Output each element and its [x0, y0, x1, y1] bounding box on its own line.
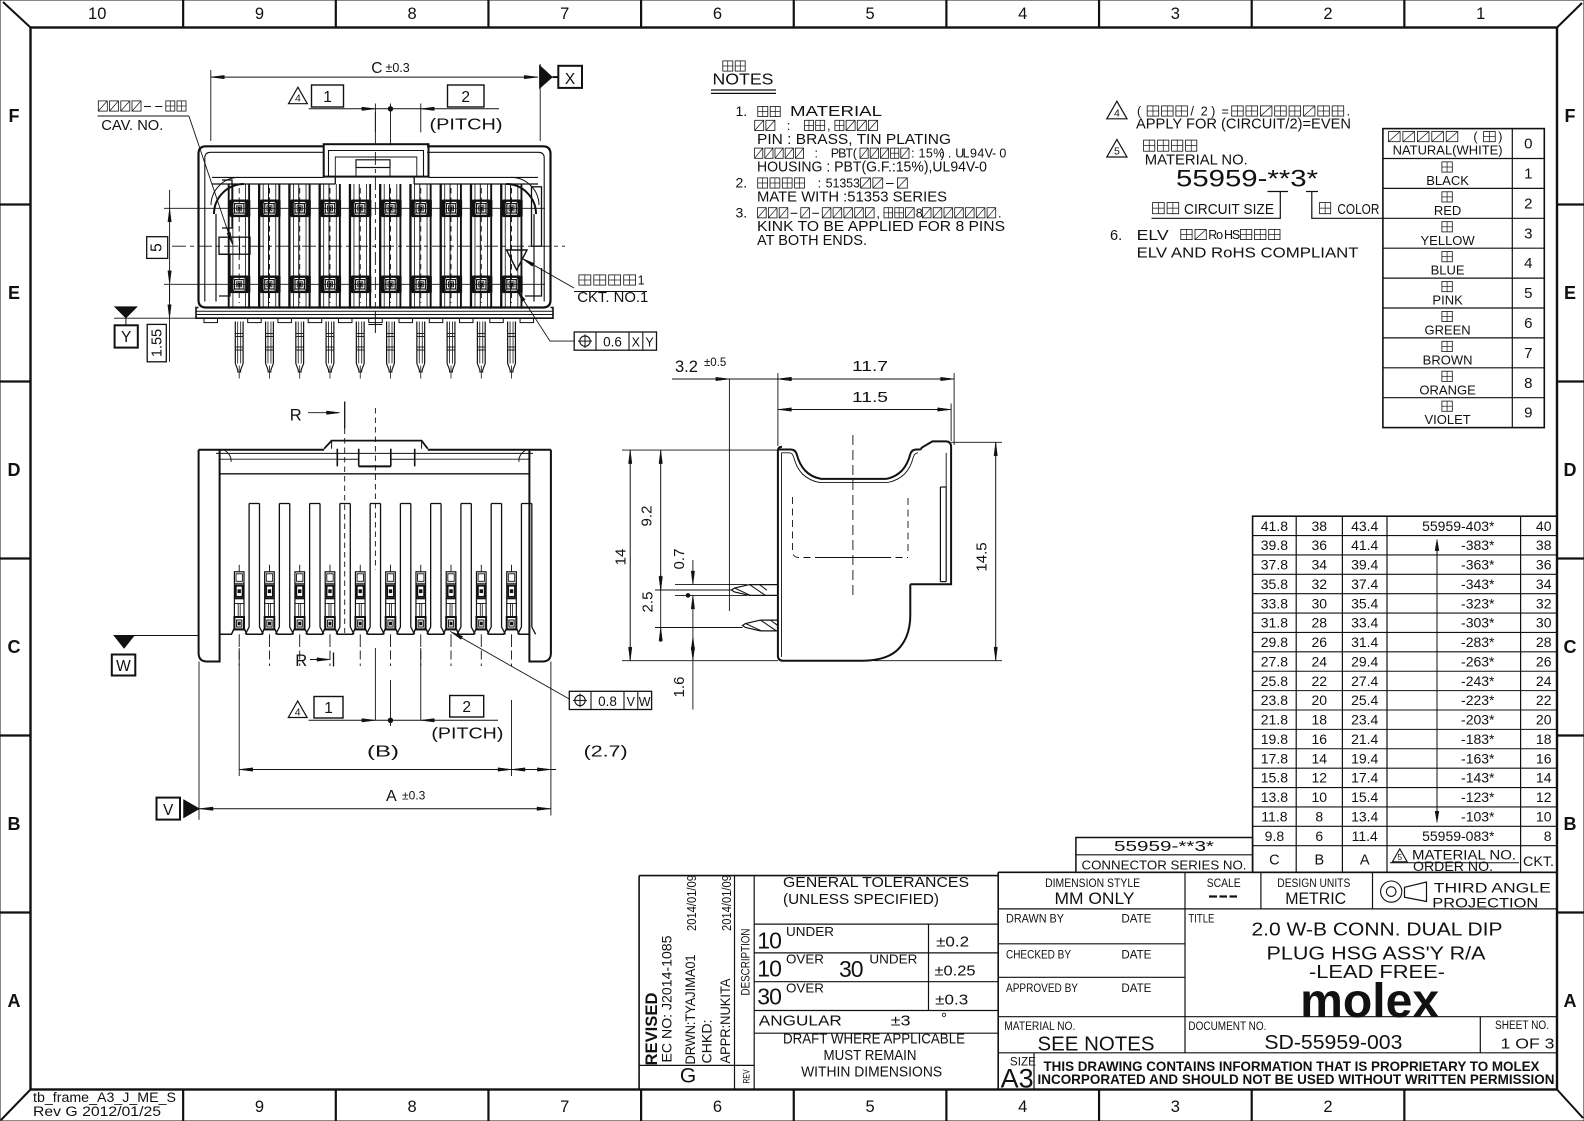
svg-text:DRAWN BY: DRAWN BY — [1006, 913, 1064, 925]
svg-text:A: A — [386, 788, 397, 805]
svg-text:-: - — [992, 147, 996, 161]
svg-text:3: 3 — [1171, 1098, 1180, 1116]
svg-text:): ) — [941, 147, 945, 161]
svg-text:1: 1 — [638, 274, 645, 288]
svg-text:39.4: 39.4 — [1351, 557, 1378, 573]
side view dimensions — [613, 357, 1003, 710]
svg-text:1: 1 — [918, 147, 925, 161]
svg-text:APPROVED BY: APPROVED BY — [1006, 983, 1078, 995]
svg-text:MM ONLY: MM ONLY — [1055, 889, 1135, 908]
svg-text:F: F — [9, 106, 20, 126]
svg-text:S: S — [1232, 228, 1240, 242]
svg-text:2: 2 — [461, 89, 470, 106]
svg-text:4: 4 — [295, 706, 301, 718]
svg-text::: : — [815, 147, 818, 161]
svg-text:31.4: 31.4 — [1351, 634, 1378, 650]
svg-text:1.6: 1.6 — [671, 677, 688, 698]
svg-text:,: , — [827, 119, 830, 133]
svg-text:CIRCUIT SIZE: CIRCUIT SIZE — [1184, 202, 1274, 218]
svg-text:8: 8 — [1544, 828, 1552, 844]
svg-text:5: 5 — [865, 5, 874, 23]
svg-text:BLUE: BLUE — [1431, 263, 1465, 278]
svg-text:26: 26 — [1536, 653, 1552, 669]
svg-text:43.4: 43.4 — [1351, 518, 1378, 534]
svg-text:(2.7): (2.7) — [584, 744, 628, 761]
svg-text:A: A — [1564, 991, 1577, 1011]
svg-text:10: 10 — [1312, 789, 1328, 805]
svg-text:39.8: 39.8 — [1261, 537, 1288, 553]
svg-text:35.8: 35.8 — [1261, 576, 1288, 592]
svg-text:SHEET NO.: SHEET NO. — [1495, 1020, 1549, 1032]
svg-text:UNDER: UNDER — [786, 925, 834, 939]
svg-text:3.2: 3.2 — [675, 358, 698, 376]
svg-text:36: 36 — [1536, 557, 1552, 573]
svg-text:17.4: 17.4 — [1351, 770, 1378, 786]
svg-text:30: 30 — [1312, 595, 1328, 611]
svg-text:37.8: 37.8 — [1261, 557, 1288, 573]
svg-text:DRAFT WHERE APPLICABLE: DRAFT WHERE APPLICABLE — [783, 1031, 965, 1047]
svg-text:17.8: 17.8 — [1261, 750, 1288, 766]
svg-text:UNDER: UNDER — [869, 953, 917, 967]
svg-text:18: 18 — [1536, 731, 1552, 747]
svg-text:2: 2 — [1323, 5, 1332, 23]
svg-text:1: 1 — [324, 700, 333, 717]
top view dimensions — [98, 60, 657, 362]
svg-text:SCALE: SCALE — [1207, 878, 1241, 890]
svg-text:34: 34 — [1312, 557, 1328, 573]
svg-text:D: D — [1564, 460, 1577, 480]
svg-text:(PITCH): (PITCH) — [430, 117, 503, 134]
svg-text:V: V — [163, 802, 174, 819]
svg-text:X: X — [632, 336, 641, 350]
svg-text:-343*: -343* — [1461, 576, 1495, 592]
svg-text:X: X — [565, 71, 576, 88]
svg-text:B: B — [1314, 852, 1324, 868]
svg-text:19.8: 19.8 — [1261, 731, 1288, 747]
svg-text:6: 6 — [713, 1098, 722, 1116]
svg-text::: : — [818, 177, 821, 191]
svg-text:30: 30 — [839, 956, 863, 982]
svg-text:13.4: 13.4 — [1351, 809, 1378, 825]
svg-text:-223*: -223* — [1461, 692, 1495, 708]
svg-text:CHKD:: CHKD: — [699, 1020, 715, 1064]
part number table — [1076, 516, 1557, 874]
svg-text:BLACK: BLACK — [1426, 173, 1469, 188]
svg-text:34: 34 — [1536, 576, 1552, 592]
svg-text:8: 8 — [1315, 809, 1323, 825]
svg-text:4: 4 — [1524, 255, 1532, 272]
svg-text:E: E — [8, 283, 20, 303]
svg-text:4: 4 — [1018, 1098, 1027, 1116]
svg-text:GREEN: GREEN — [1424, 323, 1470, 338]
svg-text:8: 8 — [408, 5, 417, 23]
svg-text:11.8: 11.8 — [1261, 809, 1287, 825]
svg-text:9: 9 — [255, 1098, 264, 1116]
svg-text::: : — [911, 147, 914, 161]
svg-text:6: 6 — [1315, 828, 1323, 844]
svg-text:37.4: 37.4 — [1351, 576, 1378, 592]
svg-text:0.8: 0.8 — [598, 694, 617, 709]
svg-text:41.4: 41.4 — [1351, 537, 1378, 553]
svg-text:28: 28 — [1536, 634, 1552, 650]
svg-text:B: B — [8, 814, 21, 834]
svg-text:o: o — [1216, 228, 1223, 242]
notes block — [711, 61, 1006, 249]
top view: connector housing — [164, 112, 565, 379]
front view: connector housing — [199, 441, 551, 666]
svg-text:±0.2: ±0.2 — [936, 934, 969, 951]
svg-text:R: R — [295, 652, 307, 670]
svg-text:21.8: 21.8 — [1261, 712, 1288, 728]
svg-text:C: C — [1564, 637, 1577, 657]
svg-text:16: 16 — [1312, 731, 1328, 747]
svg-text:-283*: -283* — [1461, 634, 1495, 650]
svg-text:MUST REMAIN: MUST REMAIN — [824, 1048, 917, 1064]
svg-text:28: 28 — [1312, 615, 1328, 631]
svg-text:30: 30 — [1536, 615, 1552, 631]
svg-text:(UNLESS SPECIFIED): (UNLESS SPECIFIED) — [783, 892, 939, 908]
svg-text:-303*: -303* — [1461, 615, 1495, 631]
svg-text:2014/01/09: 2014/01/09 — [684, 875, 699, 931]
svg-text:APPR:NUKITA: APPR:NUKITA — [717, 978, 733, 1064]
svg-text:10: 10 — [757, 956, 781, 982]
svg-text:14: 14 — [1536, 770, 1552, 786]
side view: connector housing — [732, 435, 952, 661]
svg-text:33.8: 33.8 — [1261, 595, 1288, 611]
svg-text:ELV AND RoHS COMPLIANT: ELV AND RoHS COMPLIANT — [1137, 246, 1359, 262]
svg-text:5: 5 — [1524, 285, 1532, 302]
svg-text:3.: 3. — [736, 204, 748, 220]
svg-text:7: 7 — [1524, 345, 1532, 362]
svg-text:29.4: 29.4 — [1351, 653, 1378, 669]
svg-text:31.8: 31.8 — [1261, 615, 1288, 631]
svg-text:55959-403*: 55959-403* — [1422, 518, 1495, 534]
svg-text:C: C — [8, 637, 21, 657]
svg-text:Rev G 2012/01/25: Rev G 2012/01/25 — [33, 1104, 161, 1120]
svg-text:2: 2 — [1524, 195, 1532, 212]
svg-text:4: 4 — [1114, 108, 1120, 120]
front view dimensions — [112, 402, 652, 820]
svg-text:1: 1 — [1476, 5, 1485, 23]
svg-text:DRWN:TYAJIMA01: DRWN:TYAJIMA01 — [682, 954, 698, 1064]
svg-text:10: 10 — [1536, 809, 1552, 825]
svg-text:27.8: 27.8 — [1261, 653, 1288, 669]
svg-text:R: R — [290, 407, 302, 425]
svg-text:8: 8 — [1524, 375, 1532, 392]
svg-text:32: 32 — [1312, 576, 1328, 592]
svg-text:2: 2 — [462, 699, 471, 716]
svg-text:DATE: DATE — [1121, 950, 1151, 962]
svg-text:1: 1 — [323, 89, 332, 106]
svg-text:BROWN: BROWN — [1423, 352, 1473, 367]
svg-text:ELV: ELV — [1137, 228, 1169, 244]
svg-text:DESCRIPTION: DESCRIPTION — [739, 929, 753, 996]
svg-text:VIOLET: VIOLET — [1424, 412, 1470, 427]
svg-text:YELLOW: YELLOW — [1421, 233, 1476, 248]
svg-text:19.4: 19.4 — [1351, 750, 1378, 766]
svg-text:INCORPORATED AND SHOULD NOT BE: INCORPORATED AND SHOULD NOT BE USED WITH… — [1038, 1072, 1555, 1087]
svg-text:2: 2 — [1323, 1098, 1332, 1116]
svg-text:REV: REV — [742, 1070, 752, 1084]
svg-text:8: 8 — [408, 1098, 417, 1116]
svg-text:32: 32 — [1536, 595, 1552, 611]
svg-text:55959-**3*: 55959-**3* — [1114, 839, 1214, 855]
svg-text:PIN : BRASS, TIN PLATING: PIN : BRASS, TIN PLATING — [757, 132, 951, 148]
svg-text:27.4: 27.4 — [1351, 673, 1378, 689]
svg-text:G: G — [680, 1065, 696, 1088]
notes 4-6 and material number — [1107, 101, 1384, 261]
svg-text:5: 5 — [1397, 852, 1402, 862]
svg-text:Y: Y — [645, 336, 654, 350]
svg-text:33.4: 33.4 — [1351, 615, 1378, 631]
svg-text:26: 26 — [1312, 634, 1328, 650]
svg-text:DOCUMENT NO.: DOCUMENT NO. — [1188, 1021, 1266, 1033]
svg-text:6: 6 — [1524, 315, 1532, 332]
svg-text:A: A — [8, 991, 21, 1011]
svg-text:F: F — [1565, 106, 1576, 126]
svg-text:molex: molex — [1300, 975, 1439, 1028]
svg-text:B: B — [1564, 814, 1577, 834]
svg-text:6: 6 — [713, 5, 722, 23]
svg-text:35.4: 35.4 — [1351, 595, 1378, 611]
svg-text:MATE WITH :51353 SERIES: MATE WITH :51353 SERIES — [757, 189, 947, 205]
svg-text:MATERIAL: MATERIAL — [790, 104, 882, 120]
svg-text:-143*: -143* — [1461, 770, 1495, 786]
svg-text:23.4: 23.4 — [1351, 712, 1378, 728]
svg-text:±0.5: ±0.5 — [704, 357, 726, 369]
svg-text:4: 4 — [977, 147, 984, 161]
svg-text:8: 8 — [916, 206, 923, 220]
svg-text:ORANGE: ORANGE — [1419, 382, 1476, 397]
title block — [639, 872, 1557, 1093]
svg-text:CKT.: CKT. — [1523, 854, 1554, 869]
svg-text:D: D — [8, 460, 21, 480]
svg-text:EC NO: J2014-1085: EC NO: J2014-1085 — [659, 935, 675, 1062]
svg-text:9.2: 9.2 — [639, 506, 656, 527]
svg-text:11.4: 11.4 — [1352, 828, 1378, 844]
svg-text:15.8: 15.8 — [1261, 770, 1288, 786]
svg-text:PROJECTION: PROJECTION — [1432, 895, 1538, 911]
svg-text:0.6: 0.6 — [603, 335, 622, 350]
svg-text:21.4: 21.4 — [1351, 731, 1378, 747]
svg-text:13.8: 13.8 — [1261, 789, 1288, 805]
svg-text:18: 18 — [1312, 712, 1328, 728]
svg-text:11.5: 11.5 — [852, 389, 888, 406]
color code table — [1383, 129, 1544, 428]
svg-text:L: L — [963, 147, 970, 161]
svg-text:7: 7 — [560, 5, 569, 23]
svg-text:1.: 1. — [736, 103, 748, 119]
svg-text:RED: RED — [1434, 203, 1461, 218]
svg-text:-363*: -363* — [1461, 557, 1495, 573]
svg-text:.: . — [948, 147, 951, 161]
svg-text:22: 22 — [1312, 673, 1328, 689]
svg-text:12: 12 — [1536, 789, 1552, 805]
svg-text:±0.3: ±0.3 — [402, 789, 426, 803]
svg-text:C: C — [371, 60, 382, 77]
svg-text:W: W — [116, 658, 131, 675]
svg-text:29.8: 29.8 — [1261, 634, 1288, 650]
svg-text:0.7: 0.7 — [671, 549, 688, 570]
svg-text:23.8: 23.8 — [1261, 692, 1288, 708]
svg-text:CHECKED BY: CHECKED BY — [1006, 950, 1071, 962]
svg-text:OVER: OVER — [786, 953, 824, 967]
svg-text:2.0 W-B CONN. DUAL DIP: 2.0 W-B CONN. DUAL DIP — [1252, 919, 1503, 940]
svg-text:NOTES: NOTES — [713, 72, 774, 89]
svg-text:A: A — [1360, 852, 1370, 868]
svg-text:2014/01/09: 2014/01/09 — [719, 875, 734, 931]
svg-text:24: 24 — [1536, 673, 1552, 689]
svg-text:9.8: 9.8 — [1265, 828, 1285, 844]
svg-text:ANGULAR: ANGULAR — [759, 1014, 842, 1030]
svg-text:25.4: 25.4 — [1351, 692, 1378, 708]
svg-text:THIRD ANGLE: THIRD ANGLE — [1434, 880, 1551, 896]
svg-text:NATURAL(WHITE): NATURAL(WHITE) — [1393, 144, 1503, 158]
svg-text:40: 40 — [1536, 518, 1552, 534]
svg-text:38: 38 — [1536, 537, 1552, 553]
svg-text:9: 9 — [1524, 405, 1532, 422]
svg-text:(PITCH): (PITCH) — [431, 726, 503, 743]
svg-text:E: E — [1564, 283, 1576, 303]
svg-text:WITHIN DIMENSIONS: WITHIN DIMENSIONS — [801, 1065, 942, 1081]
svg-text:20: 20 — [1312, 692, 1328, 708]
svg-text:2.5: 2.5 — [640, 592, 657, 613]
svg-text:°: ° — [941, 1010, 947, 1027]
svg-text:Y: Y — [121, 329, 131, 346]
svg-text:3: 3 — [1524, 225, 1532, 242]
svg-text:4: 4 — [295, 93, 301, 105]
svg-text:5: 5 — [1114, 146, 1120, 158]
svg-text:DATE: DATE — [1121, 913, 1151, 925]
svg-text:V: V — [627, 695, 636, 709]
svg-text:38: 38 — [1312, 518, 1328, 534]
svg-text:9: 9 — [970, 147, 977, 161]
svg-text:1 OF 3: 1 OF 3 — [1501, 1036, 1555, 1053]
svg-text:2.: 2. — [736, 175, 748, 191]
svg-text:PINK: PINK — [1432, 293, 1463, 308]
svg-text:6.: 6. — [1110, 228, 1122, 244]
svg-text:1: 1 — [1524, 166, 1532, 183]
svg-text:GENERAL TOLERANCES: GENERAL TOLERANCES — [783, 875, 969, 891]
svg-text:15.4: 15.4 — [1351, 789, 1378, 805]
svg-text:METRIC: METRIC — [1285, 889, 1346, 908]
svg-text:5: 5 — [149, 243, 166, 252]
svg-text:0: 0 — [1524, 136, 1532, 153]
svg-text:CAV. NO.: CAV. NO. — [101, 118, 163, 134]
svg-text:TITLE: TITLE — [1188, 913, 1214, 925]
svg-text::: : — [787, 119, 790, 133]
svg-text:(B): (B) — [367, 744, 399, 761]
svg-text:20: 20 — [1536, 712, 1552, 728]
svg-text:SEE NOTES: SEE NOTES — [1038, 1034, 1155, 1056]
svg-text:10: 10 — [88, 5, 106, 23]
svg-text:CONNECTOR SERIES NO.: CONNECTOR SERIES NO. — [1082, 857, 1247, 872]
svg-text:C: C — [1269, 852, 1279, 868]
svg-text:0: 0 — [999, 147, 1006, 161]
svg-text:-123*: -123* — [1461, 789, 1495, 805]
svg-text:±0.3: ±0.3 — [935, 991, 968, 1008]
svg-text:7: 7 — [560, 1098, 569, 1116]
svg-text:5: 5 — [926, 147, 933, 161]
svg-text:-263*: -263* — [1461, 653, 1495, 669]
svg-text:36: 36 — [1312, 537, 1328, 553]
svg-text:-183*: -183* — [1461, 731, 1495, 747]
svg-text:55959-**3*: 55959-**3* — [1176, 166, 1318, 193]
svg-text:SD-55959-003: SD-55959-003 — [1264, 1032, 1402, 1054]
svg-text:-323*: -323* — [1461, 595, 1495, 611]
svg-text:14: 14 — [613, 549, 630, 566]
svg-text:22: 22 — [1536, 692, 1552, 708]
svg-text:.: . — [998, 206, 1001, 220]
svg-text:3: 3 — [853, 177, 860, 191]
svg-text:16: 16 — [1536, 750, 1552, 766]
svg-text:41.8: 41.8 — [1261, 518, 1288, 534]
svg-text:DATE: DATE — [1121, 983, 1151, 995]
svg-text:APPLY FOR (CIRCUIT/2)=EVEN: APPLY FOR (CIRCUIT/2)=EVEN — [1136, 117, 1351, 133]
svg-text:OVER: OVER — [786, 981, 824, 995]
svg-text:25.8: 25.8 — [1261, 673, 1288, 689]
svg-text:55959-083*: 55959-083* — [1422, 828, 1495, 844]
svg-text:W: W — [639, 695, 651, 709]
svg-text:±0.3: ±0.3 — [386, 61, 410, 75]
svg-text:11.7: 11.7 — [852, 358, 888, 375]
svg-text:5: 5 — [865, 1098, 874, 1116]
svg-text:COLOR: COLOR — [1337, 202, 1379, 218]
svg-text:-103*: -103* — [1461, 809, 1495, 825]
svg-text:30: 30 — [757, 983, 781, 1009]
svg-text:±0.25: ±0.25 — [935, 963, 976, 980]
svg-text:10: 10 — [757, 927, 781, 953]
svg-text:MATERIAL NO.: MATERIAL NO. — [1004, 1021, 1075, 1033]
svg-text:9: 9 — [255, 5, 264, 23]
svg-text:±3: ±3 — [891, 1013, 911, 1030]
svg-text:-243*: -243* — [1461, 673, 1495, 689]
svg-text:1.55: 1.55 — [150, 329, 166, 357]
svg-text:HOUSING : PBT(G.F.:15%),UL94V-: HOUSING : PBT(G.F.:15%),UL94V-0 — [757, 160, 987, 176]
svg-text:24: 24 — [1312, 653, 1328, 669]
svg-text:4: 4 — [1018, 5, 1027, 23]
svg-text:,: , — [876, 206, 879, 220]
svg-text:-163*: -163* — [1461, 750, 1495, 766]
svg-text:-203*: -203* — [1461, 712, 1495, 728]
svg-text:14.5: 14.5 — [974, 542, 991, 571]
svg-text:12: 12 — [1312, 770, 1328, 786]
svg-text:3: 3 — [1171, 5, 1180, 23]
svg-text:CKT. NO.1: CKT. NO.1 — [577, 290, 648, 306]
svg-text:A3: A3 — [1001, 1064, 1034, 1094]
svg-text:-383*: -383* — [1461, 537, 1495, 553]
svg-text:AT BOTH ENDS.: AT BOTH ENDS. — [757, 233, 867, 249]
svg-text:): ) — [1498, 130, 1502, 144]
svg-text:14: 14 — [1312, 750, 1328, 766]
